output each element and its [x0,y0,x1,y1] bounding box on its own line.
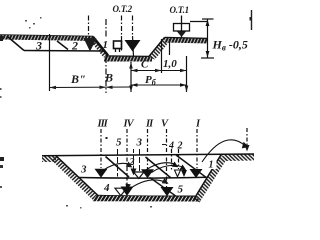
svg-text:2: 2 [177,141,183,152]
svg-text:С: С [141,59,149,71]
svg-text:4: 4 [103,182,110,194]
axis 4 [171,149,173,170]
Hv top bar [202,18,214,20]
surface line [42,154,254,156]
open triangle o1 [134,172,145,178]
bottom hatch [92,196,201,202]
zone2 slope tick [57,41,68,50]
svg-text:2: 2 [71,39,78,53]
bench line [79,176,208,179]
dimension verticals [50,19,187,93]
arrow C left [131,69,138,73]
benchmark triangle t6 [121,187,134,196]
left edge dots mid [0,88,2,90]
OT1 box [174,24,190,32]
benchmark triangle t3 [141,169,154,178]
arc2 head [172,162,179,168]
roman numeral axes [101,128,247,187]
OT1 marker [174,16,208,39]
Pb right arrow [180,83,187,87]
legend dash [162,144,166,146]
svg-text:4: 4 [168,141,174,152]
legend dot [106,137,108,139]
down arrow x186 [185,86,189,93]
axis through zone2 mark [88,16,90,37]
right edge bracket mark [251,10,253,30]
svg-text:2: 2 [129,157,135,168]
svg-text:V: V [161,119,169,130]
svg-text:5: 5 [178,184,184,196]
arc4 [202,140,246,162]
arc2 [146,163,176,170]
up arrow x131 [129,62,133,69]
left edge mark top [0,36,3,41]
OT1 stub line [190,21,208,23]
arrow vertical x131 [130,62,132,92]
OT2 square mark [114,41,122,49]
dim line B" and B [50,86,132,89]
arrow C right [155,69,162,73]
svg-text:В: В [104,71,113,85]
zone3 slope tick [8,37,24,51]
arrow 1,0 right [180,69,187,73]
trench right slope hatch [149,38,171,60]
arc1 [103,163,131,170]
axis under zone 2 [133,149,135,169]
Hv dimension line [201,19,214,58]
OT1 post [181,16,183,39]
surface hatch right [222,154,254,161]
trench bottom line [106,55,149,58]
Hv bottom arrow [206,51,210,58]
ground hatch left [0,35,94,41]
open triangle o2 [115,188,127,196]
ext line x186 [186,56,188,92]
svg-text:О.Т.2: О.Т.2 [113,4,133,14]
small arrow axis4 [175,170,181,177]
benchmark triangle t5 [190,169,203,178]
ground surface right [165,38,208,39]
OT1 arrow mark [177,32,186,38]
svg-text:1,0: 1,0 [163,58,177,70]
arc1 head [126,162,133,168]
small arrow axis2 [181,170,187,177]
arc3 head [162,178,169,184]
down arrow x131 [129,86,133,93]
axis OT2 right [132,16,134,37]
axis right dump [246,128,248,146]
arc arrows [103,140,246,190]
left slope line [56,156,98,196]
axis OT2 left [121,16,123,37]
axis II [147,129,149,169]
trench bottom hatch [104,57,152,62]
axis ext line x106 [105,19,107,38]
arc4 head [242,142,249,149]
svg-text:О.Т.1: О.Т.1 [170,5,189,15]
arc3 [128,180,165,190]
svg-text:3: 3 [80,164,87,176]
axis 2 [178,149,180,169]
Hv vertical [207,19,209,58]
Pb left arrow [131,83,138,87]
svg-text:В": В" [70,72,86,86]
trench left slope hatch [89,37,108,58]
axis III [100,129,102,168]
svg-text:3: 3 [35,39,42,53]
svg-text:5: 5 [116,137,122,149]
right slope line [194,155,221,199]
axis V [166,129,168,187]
svg-text:3: 3 [136,137,143,149]
ext line B" left [49,34,51,91]
svg-text:1: 1 [209,160,214,171]
zone bottom line [24,50,104,53]
benchmark triangle t7 [161,187,174,196]
ground surface left [0,35,94,37]
OT2 benchmark triangle [125,40,141,52]
OT2 square feet [115,49,117,53]
diagonal d1 [106,157,130,178]
trench left slope [93,37,108,56]
axis under legend 5 [117,149,119,177]
left slope hatch [52,156,99,200]
axis IV [126,129,128,186]
right slope hatch [194,155,227,203]
surface hatch left [42,156,56,162]
benchmark triangle t1 [95,169,108,178]
Hv bottom bar [201,57,214,59]
diagonal d3 [176,155,206,177]
left edge marks bottom [0,157,4,161]
bottom line [97,195,195,198]
ext line x169 [169,39,171,55]
trench right slope [149,38,165,58]
ground hatch right [165,38,208,44]
zone2 benchmark triangle [84,38,97,52]
arrow B" left [50,86,57,90]
arrow right dump axis [245,145,250,152]
Hv top arrow [206,20,210,27]
dim line Pb [131,84,187,86]
OT2 axis lines [89,16,134,57]
diagonal d2 [146,157,172,178]
ext line x161 [161,39,163,73]
axis I [196,129,198,169]
svg-text:1: 1 [103,39,109,51]
svg-text:Нв -0,5: Нв -0,5 [212,38,248,53]
axis under legend 3 [139,149,141,171]
diagonal d4 [150,177,177,196]
arc3 left head [126,184,132,190]
top-left specks [25,17,42,29]
dim line C / 1,0 [131,70,187,72]
zone label 1 backing [206,158,217,170]
tick at x106 [100,86,107,90]
